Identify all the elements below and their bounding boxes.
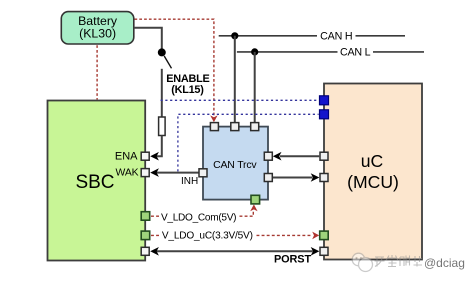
CAN transceiver U2 box (203, 127, 268, 200)
svg-text:SBC: SBC (75, 172, 114, 193)
arrowhead into CAN Trcv (273, 152, 282, 161)
blue dashed wire KL15 to uC (161, 99, 319, 101)
svg-text:V_LDO_uC(3.3V/5V): V_LDO_uC(3.3V/5V) (162, 230, 253, 241)
pin CANH (CAN Trcv top 2) (231, 123, 239, 131)
svg-text:CAN H: CAN H (320, 31, 352, 43)
wire PORST (bidirectional) (150, 247, 319, 256)
uC (MCU) U3 box (324, 84, 422, 260)
red dashed wire battery to SBC (96, 45, 98, 99)
arrowhead into WAK (150, 168, 159, 177)
label ENABLE (KL15) (166, 73, 209, 96)
SBC U1 box (48, 101, 146, 261)
pin V_LDO_uC (SBC, green) (141, 231, 150, 240)
wire CAN Trcv to uC (RXD) (272, 177, 312, 179)
svg-text:ENA: ENA (115, 151, 138, 163)
pin ENA (SBC) (115, 151, 149, 163)
pin VDD (uC, green) (320, 231, 329, 240)
wire CANH down to CAN Trcv pin (234, 36, 236, 123)
svg-text:@dciag: @dciag (424, 256, 465, 270)
arrowhead into ENA (150, 152, 159, 161)
red dashed wire V_LDO_uC to uC (151, 232, 319, 240)
wire ENABLE vertical to resistor (161, 69, 163, 117)
wire uC to CAN Trcv (TXD) (280, 155, 319, 157)
watermark text (stylized glyph strokes) (375, 255, 423, 267)
wire resistor to ENA pin (157, 136, 162, 157)
node KL15 junction dot (158, 48, 166, 56)
wire battery to KL15 node (134, 28, 162, 49)
svg-text:INH: INH (181, 176, 198, 187)
wire CANL down to CAN Trcv pin (254, 52, 256, 123)
pin V_LDO_Com (SBC, green) (141, 212, 150, 221)
svg-text:(KL30): (KL30) (79, 27, 116, 41)
pin PORST (SBC) (141, 247, 149, 255)
blue dashed wire WAK to uC (178, 114, 319, 171)
resistor R1 (159, 117, 166, 136)
pin WAK (SBC) (116, 168, 150, 179)
leader line to ENABLE label (164, 56, 171, 68)
CAN L bus wire (237, 47, 424, 59)
battery B1 box (61, 12, 134, 44)
wire INH to WAK (157, 172, 199, 174)
svg-text:WAK: WAK (116, 168, 139, 179)
svg-text:PORST: PORST (274, 254, 311, 266)
watermark icon (352, 253, 372, 271)
pin RXD (CAN Trcv right 2) (264, 174, 272, 182)
pin RXD (uC) (320, 174, 328, 182)
pin CANL (CAN Trcv top 3) (251, 123, 259, 131)
pin CANL sense (uC, blue) (320, 110, 329, 119)
pin INH (CAN Trcv left) (181, 169, 207, 187)
pin PORST (uC) (320, 247, 328, 255)
svg-text:V_LDO_Com(5V): V_LDO_Com(5V) (161, 212, 236, 223)
pin VIO (CAN Trcv bottom, green) (251, 195, 260, 204)
pin CANH sense (uC, blue) (320, 96, 329, 105)
svg-text:CAN Trcv: CAN Trcv (213, 159, 257, 171)
svg-text:(KL15): (KL15) (171, 84, 204, 96)
arrowhead into uC (311, 173, 320, 182)
pin TXD (CAN Trcv right 1) (264, 152, 272, 160)
red dashed wire battery to CAN Trcv supply pin (135, 19, 218, 122)
svg-text:CAN L: CAN L (340, 47, 371, 59)
svg-text:(MCU): (MCU) (347, 172, 399, 192)
pin TXD (uC) (320, 152, 328, 160)
svg-text:uC: uC (361, 151, 384, 171)
node CANL junction dot (251, 48, 258, 55)
node CANH junction dot (231, 32, 238, 39)
red dashed wire V_LDO_Com to CAN Trcv (151, 204, 258, 216)
pin VCC (CAN Trcv top 1) (210, 123, 218, 131)
CAN H bus wire (219, 31, 405, 43)
